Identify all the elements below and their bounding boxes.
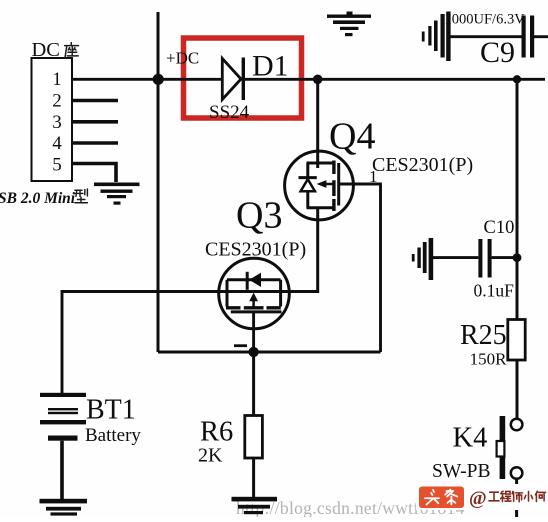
badge 头条 orange box <box>419 487 464 509</box>
capacitor C10 polarized plates (left crescendo) <box>412 238 433 280</box>
wire C10 body <box>433 256 478 259</box>
junction dot at C10 <box>513 253 522 262</box>
svg-text:C9: C9 <box>480 36 515 69</box>
transistor Q4 body circle <box>285 151 354 220</box>
svg-text:5: 5 <box>52 154 62 175</box>
Q3 left bar <box>226 280 229 307</box>
Q4 body arrow <box>326 183 334 186</box>
Q3 gate plate <box>231 310 282 313</box>
connector J1 DC socket box <box>32 58 73 181</box>
svg-text:K4: K4 <box>453 423 488 454</box>
Q3 channel dashes <box>226 306 281 309</box>
wire vertical rail from top <box>157 12 160 352</box>
glyph 小 dark red <box>524 491 532 501</box>
wire pin2 stub <box>72 99 118 103</box>
wire C10 right lead <box>492 256 517 259</box>
glyph 型 <box>74 189 87 203</box>
wire battery negative to ground <box>60 441 64 500</box>
Q3 body arrow <box>252 299 255 308</box>
Q3 body-diode triangle <box>249 273 261 287</box>
Q4 top bar <box>307 162 333 165</box>
Q3 right bar <box>279 280 282 307</box>
glyph 程 dark red <box>501 491 511 501</box>
transistor Q3 body circle <box>219 258 290 329</box>
svg-text:2: 2 <box>52 91 62 112</box>
svg-text:150R: 150R <box>470 350 508 369</box>
junction dot at rail and pin1 <box>153 74 164 85</box>
ground at battery <box>40 499 88 516</box>
wire battery positive to Q3 source <box>62 292 318 394</box>
wire K4 bottom <box>515 479 518 517</box>
wire R6 bottom <box>252 458 255 498</box>
Q4 body-diode cathode bar <box>299 176 317 179</box>
wire Q4 drain <box>316 79 319 168</box>
glyph 条 white <box>445 490 457 505</box>
junction dot at right rail <box>513 75 521 83</box>
junction dot at Q4 drain <box>313 75 323 85</box>
Q4 bottom bar <box>307 206 333 209</box>
Q4 body-diode triangle <box>301 179 315 191</box>
wire pin4 stub <box>72 141 118 145</box>
svg-text:R25: R25 <box>460 320 507 351</box>
svg-text:C10: C10 <box>484 218 515 238</box>
wire Q4 gate to bottom net <box>339 184 381 352</box>
capacitor C10 plates <box>478 239 482 278</box>
resistor R6 <box>245 416 263 459</box>
switch K4 bottom contact <box>511 467 523 479</box>
red highlight rectangle around D1 <box>184 38 302 118</box>
svg-text:4: 4 <box>52 133 62 154</box>
Q3 body-diode branch horizontal <box>227 278 281 281</box>
Q4 gate plate <box>337 163 340 206</box>
svg-text:D1: D1 <box>252 50 289 83</box>
svg-text:Q4: Q4 <box>329 116 375 158</box>
wire pin1 to D1 anode (net +DC) <box>72 78 222 81</box>
switch K4 actuator bar <box>500 416 506 479</box>
wire C9 right lead <box>534 35 548 38</box>
wire right rail down <box>516 79 519 418</box>
wire pin5 to ground <box>72 164 116 183</box>
svg-text:CES2301(P): CES2301(P) <box>205 239 306 261</box>
ground at R6 <box>232 497 278 514</box>
diode D1 cathode bar <box>242 58 245 101</box>
Q4 channel dashes <box>332 161 335 212</box>
svg-text:@: @ <box>469 488 487 509</box>
Q3 body-diode cathode bar <box>246 272 249 290</box>
wire D1 cathode to right edge (main rail) <box>243 78 545 81</box>
svg-text:SW-PB: SW-PB <box>432 461 491 482</box>
diode D1 triangle <box>222 59 241 100</box>
wire bottom net rail to Q4 gate corner <box>158 351 381 354</box>
svg-text:1: 1 <box>52 69 62 90</box>
capacitor C9 polarized plates (left crescendo) <box>422 12 451 62</box>
svg-text:2K: 2K <box>198 445 223 467</box>
glyph 工 dark red <box>489 492 499 501</box>
wire C9 body <box>450 35 522 38</box>
svg-text:+DC: +DC <box>166 49 199 68</box>
switch K4 top contact <box>511 419 523 431</box>
watermark badge background <box>416 484 547 510</box>
svg-text:0.1uF: 0.1uF <box>474 281 515 301</box>
svg-text:1000UF/6.3V: 1000UF/6.3V <box>445 12 526 28</box>
switch K4 plunger <box>497 441 505 457</box>
svg-text:R6: R6 <box>200 417 233 448</box>
capacitor C9 right plates <box>522 16 526 58</box>
wire R6 top <box>252 352 255 416</box>
junction dot bottom net <box>248 347 258 357</box>
ground top middle (floating) <box>327 12 371 37</box>
Q4 body-diode branch vertical <box>306 163 309 208</box>
svg-text:DC: DC <box>32 39 60 61</box>
minus polarity mark <box>234 344 247 347</box>
ground at pin5 <box>94 183 140 205</box>
svg-text:Battery: Battery <box>85 425 141 446</box>
wire pin3 stub <box>72 120 118 124</box>
svg-text:SB 2.0 Mini: SB 2.0 Mini <box>0 190 76 207</box>
battery BT1 plates <box>40 393 86 441</box>
glyph 师 dark red <box>512 491 522 501</box>
svg-text:SS24: SS24 <box>209 102 250 123</box>
wire Q4 source down to Q3 drain <box>289 208 318 292</box>
svg-text:BT1: BT1 <box>86 395 136 426</box>
svg-text:CES2301(P): CES2301(P) <box>372 154 473 176</box>
glyph 何 dark red <box>535 491 545 501</box>
resistor R25 <box>508 320 525 361</box>
svg-text:Q3: Q3 <box>236 195 282 237</box>
wire Q3 gate down to junction <box>252 312 255 352</box>
glyph 头 white <box>425 490 439 505</box>
glyph 座 <box>65 43 79 58</box>
svg-text:3: 3 <box>52 112 62 133</box>
